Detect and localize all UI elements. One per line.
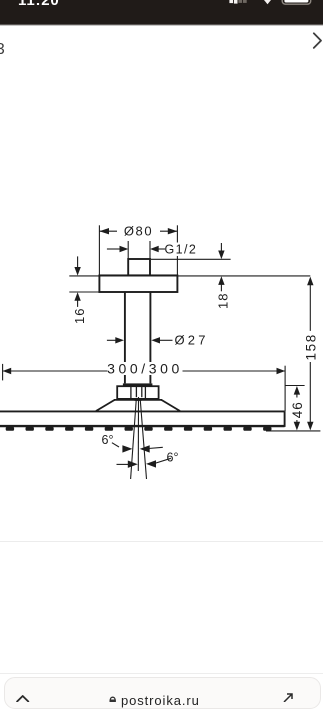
outlet nipple	[134, 399, 142, 400]
shower head plate	[0, 411, 285, 427]
spray face bottom	[0, 425, 285, 427]
technical drawing	[0, 0, 323, 560]
share icon	[282, 693, 296, 702]
url pill	[4, 677, 321, 709]
svg-text:18: 18	[216, 293, 231, 309]
padlock	[107, 694, 119, 702]
ceiling line	[69, 275, 310, 277]
connector nut G1/2	[128, 259, 150, 275]
svg-text:Ø80: Ø80	[124, 223, 153, 238]
home icon	[14, 694, 32, 702]
svg-text:46: 46	[290, 401, 305, 418]
flange bar at pipe bottom	[123, 383, 152, 386]
6 deg arrows row 1	[122, 445, 162, 452]
bottom hairline	[0, 673, 323, 674]
svg-text:300/300: 300/300	[107, 360, 183, 376]
dimension 18	[218, 243, 224, 291]
nozzles	[6, 427, 272, 431]
ceiling plate	[99, 275, 177, 292]
cone escutcheon	[96, 400, 180, 411]
collar facets	[131, 386, 146, 399]
signal bars	[0, 0, 323, 24]
svg-text:6°: 6°	[167, 450, 179, 464]
url text	[121, 693, 200, 708]
wifi / vpn triangle	[264, 0, 271, 4]
spray center axis line	[137, 397, 139, 471]
6 deg arrows row 2	[117, 458, 171, 468]
dimension 300/300	[3, 364, 286, 412]
datum line	[266, 430, 320, 432]
svg-text:6°: 6°	[102, 433, 114, 447]
battery	[282, 0, 311, 4]
dimension 46	[294, 386, 300, 430]
svg-text:16: 16	[72, 308, 87, 324]
dimension 158	[307, 277, 313, 431]
svg-text:G1/2: G1/2	[165, 243, 198, 257]
dimension Ø27	[107, 337, 173, 343]
collar block	[117, 386, 158, 399]
dimension G1/2	[107, 241, 165, 259]
connector top extension line	[151, 258, 231, 260]
spray angle lines	[131, 399, 147, 479]
section divider	[0, 541, 323, 542]
svg-text:Ø27: Ø27	[175, 333, 209, 348]
dimension Ø80	[99, 225, 177, 275]
status bar	[0, 0, 323, 24]
status bar soft edge	[0, 24, 323, 27]
chevron next >	[308, 30, 323, 52]
page counter "3" clipped at left edge	[0, 41, 6, 58]
plate bottom extension line	[69, 291, 99, 293]
svg-text:158: 158	[304, 333, 319, 360]
dimension 16	[74, 256, 80, 307]
6 deg left leader	[112, 443, 119, 447]
pipe	[125, 292, 150, 383]
clock 11:20 (cut at top)	[18, 0, 60, 9]
46 top reference line	[285, 385, 305, 387]
